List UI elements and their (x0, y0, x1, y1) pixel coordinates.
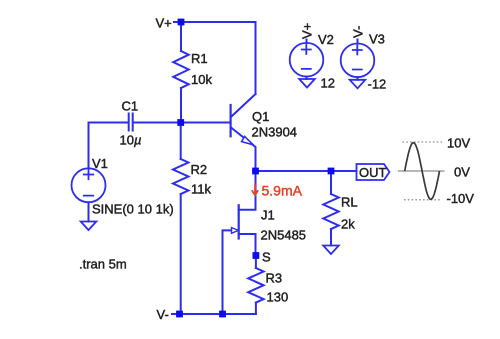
wire V- flag to V3 (357, 40, 359, 44)
transistor Q1 emitter (232, 128, 256, 171)
svg-text:130: 130 (267, 290, 289, 305)
svg-text:S: S (262, 250, 271, 265)
wire S node to R3 (255, 256, 257, 269)
svg-text:10V: 10V (447, 136, 470, 151)
svg-text:2N3904: 2N3904 (252, 125, 298, 140)
svg-text:V+: V+ (299, 23, 314, 39)
wire R1 to base node (180, 88, 182, 123)
wire V+ rail top (174, 22, 256, 94)
wire RL to ground (330, 229, 332, 246)
node V- junction left (176, 311, 183, 318)
svg-text:2k: 2k (341, 217, 355, 232)
svg-text:R2: R2 (191, 162, 208, 177)
wire C1 to V1 (89, 123, 129, 169)
svg-text:12: 12 (321, 76, 335, 91)
jfet J1 gate arrow (232, 228, 239, 234)
svg-text:V+: V+ (156, 16, 172, 31)
wire V1 to ground (88, 202, 90, 221)
svg-text:10µ: 10µ (120, 133, 142, 148)
waveform axis 0V (398, 170, 445, 172)
wire V3 to ground (357, 77, 359, 80)
waveform dotted -10V (404, 199, 440, 201)
svg-text:V2: V2 (318, 32, 334, 47)
svg-text:R3: R3 (266, 271, 283, 286)
svg-text:R1: R1 (191, 51, 208, 66)
wire V2 to ground (306, 77, 308, 80)
node OUT junction (328, 168, 335, 175)
wire emitter node to J1 drain (239, 171, 256, 210)
svg-text:SINE(0 10 1k): SINE(0 10 1k) (92, 202, 174, 217)
wire base node to Q1 base (133, 122, 230, 124)
resistor R3 (248, 268, 263, 303)
jfet J1 channel bar (238, 205, 240, 238)
current annotation arrow (252, 184, 258, 196)
node V- junction gate (219, 311, 226, 318)
transistor Q1 emitter arrow (242, 136, 254, 145)
voltage source V2 (290, 43, 324, 77)
resistor R2 (173, 159, 188, 194)
wire V- rail (172, 313, 256, 315)
node V+ junction (178, 19, 185, 26)
resistor R1 (173, 51, 188, 88)
ground below RL (323, 246, 339, 255)
transistor Q1 base bar (230, 105, 232, 136)
svg-text:-12: -12 (368, 77, 387, 92)
svg-text:0V: 0V (454, 165, 470, 180)
svg-text:5.9mA: 5.9mA (262, 183, 303, 199)
svg-text:J1: J1 (261, 208, 275, 223)
net flag OUT (357, 164, 390, 180)
wire emitter node to OUT (256, 170, 357, 172)
svg-text:V1: V1 (92, 156, 108, 171)
resistor RL (323, 194, 338, 229)
jfet J1 gate (223, 230, 233, 314)
svg-text:C1: C1 (122, 99, 139, 114)
node emitter junction (252, 168, 259, 175)
wire V+ flag to V2 (306, 40, 308, 44)
waveform sine curve (405, 143, 440, 200)
wire OUT junction to RL (330, 171, 332, 194)
ground below V2 (299, 79, 315, 88)
svg-text:V-: V- (157, 307, 169, 322)
svg-text:V3: V3 (369, 32, 385, 47)
transistor Q1 collector (232, 94, 256, 116)
wire base node to R2 (180, 123, 182, 160)
svg-text:OUT: OUT (359, 165, 387, 180)
jfet J1 source (239, 234, 256, 256)
svg-text:11k: 11k (191, 182, 211, 197)
waveform dotted +10V (403, 141, 444, 143)
svg-text:10k: 10k (191, 72, 212, 87)
node base junction (177, 119, 184, 126)
svg-text:2N5485: 2N5485 (261, 228, 307, 243)
svg-text:.tran 5m: .tran 5m (79, 257, 127, 272)
svg-text:Q1: Q1 (252, 109, 269, 124)
voltage source V1 (72, 168, 106, 202)
wire V+ square to R1 (180, 22, 182, 51)
svg-text:RL: RL (341, 195, 358, 210)
ground below V1 (81, 222, 97, 231)
wire R2 to V- rail (180, 194, 182, 314)
capacitor C1 (129, 114, 133, 131)
node S junction (253, 252, 260, 259)
svg-text:-10V: -10V (447, 191, 475, 206)
wire R3 to V- rail (255, 303, 257, 315)
voltage source V3 (341, 44, 375, 78)
svg-text:V-: V- (351, 26, 366, 38)
ground below V3 (350, 80, 366, 89)
